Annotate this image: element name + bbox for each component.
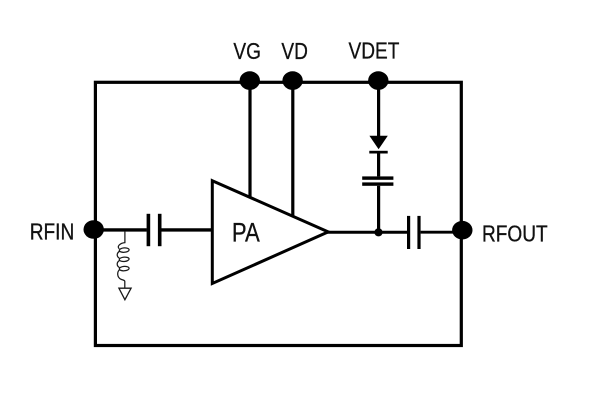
svg-text:RFOUT: RFOUT [482, 222, 548, 247]
svg-text:VDET: VDET [349, 39, 400, 64]
svg-text:RFIN: RFIN [30, 220, 75, 245]
svg-text:VG: VG [233, 39, 261, 64]
svg-text:VD: VD [281, 39, 308, 64]
svg-text:PA: PA [232, 218, 260, 248]
